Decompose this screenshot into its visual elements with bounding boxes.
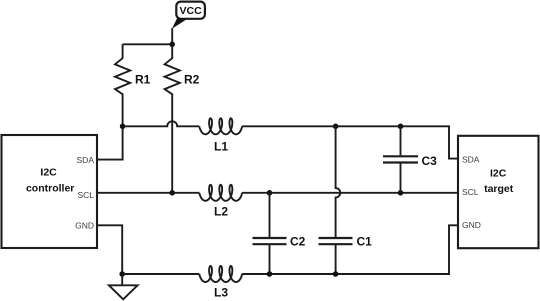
resistor R2 — [165, 44, 180, 193]
junction: R2 / SCL row — [169, 190, 175, 196]
inductor L3 — [199, 266, 242, 282]
ground symbol — [109, 274, 138, 299]
svg-text:SCL: SCL — [462, 187, 479, 197]
svg-text:R1: R1 — [135, 72, 151, 86]
svg-text:target: target — [484, 183, 514, 195]
junction: SDA row / C3 — [398, 124, 404, 130]
svg-text:GND: GND — [462, 220, 481, 230]
junction: SCL row / C3 — [398, 190, 404, 196]
svg-text:C3: C3 — [422, 154, 438, 168]
svg-text:I2C: I2C — [40, 167, 57, 179]
wire bottom row left (junction to L3) — [122, 273, 199, 275]
svg-text:SCL: SCL — [77, 190, 94, 200]
svg-text:GND: GND — [75, 221, 94, 231]
capacitor C2 — [253, 193, 287, 274]
wire SDA row right (to I2C target SDA) — [242, 126, 458, 158]
svg-text:L1: L1 — [214, 139, 228, 153]
capacitor C1 (lead hops over SCL row) — [319, 126, 353, 274]
IC box: I2C controller — [2, 135, 98, 248]
svg-text:C1: C1 — [357, 235, 373, 249]
svg-text:controller: controller — [26, 183, 74, 195]
wire GND from controller (down to bottom row) — [97, 225, 122, 274]
svg-text:SDA: SDA — [77, 155, 95, 165]
junction: VCC / top rail / R2 — [169, 42, 175, 48]
label I2C target — [484, 167, 514, 195]
svg-text:C2: C2 — [290, 235, 306, 249]
wire SCL row right (to I2C target SCL) — [242, 192, 458, 194]
inductor L2 — [199, 185, 242, 201]
power flag VCC — [172, 2, 205, 29]
svg-text:L2: L2 — [214, 204, 228, 218]
wire SDA from controller (up to SDA row) — [97, 126, 123, 159]
svg-text:I2C: I2C — [490, 167, 507, 179]
svg-text:L3: L3 — [214, 285, 228, 299]
svg-text:R2: R2 — [184, 72, 200, 86]
wire bottom row right (to I2C target GND) — [242, 225, 458, 274]
junction: bottom row / C2 — [267, 271, 273, 277]
wire SDA row left (hops over R2) — [123, 121, 200, 126]
junction: SDA row / C1 — [333, 124, 339, 130]
junction: SCL row / C2 — [267, 190, 273, 196]
IC box: I2C target — [458, 136, 539, 248]
label I2C controller — [26, 167, 74, 195]
wire SCL row left (controller SCL to L2) — [97, 192, 199, 194]
capacitor C3 — [383, 126, 418, 193]
junction: R1 / SDA row — [120, 124, 126, 130]
junction: bottom row / C1 — [333, 271, 339, 277]
wire top rail (R1 top to R2 top) — [123, 43, 173, 45]
inductor L1 — [199, 118, 242, 134]
wire VCC tail to top rail — [171, 28, 173, 44]
junction: GND stub / bottom row / ground — [119, 271, 125, 277]
resistor R1 — [115, 44, 130, 126]
svg-text:VCC: VCC — [180, 5, 203, 17]
svg-text:SDA: SDA — [462, 154, 480, 164]
